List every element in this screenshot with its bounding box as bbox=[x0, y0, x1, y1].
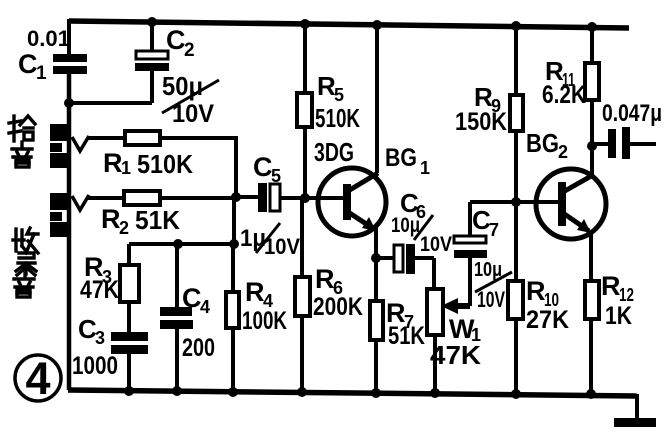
svg-text:1: 1 bbox=[420, 158, 430, 178]
svg-text:200: 200 bbox=[182, 334, 215, 362]
svg-text:2: 2 bbox=[558, 142, 568, 162]
svg-text:2: 2 bbox=[119, 218, 129, 238]
svg-text:C: C bbox=[166, 25, 186, 55]
svg-text:0.047μ: 0.047μ bbox=[602, 100, 662, 127]
svg-text:4: 4 bbox=[200, 297, 210, 317]
svg-text:2: 2 bbox=[184, 40, 195, 61]
svg-text:1: 1 bbox=[36, 63, 47, 84]
svg-text:C: C bbox=[18, 49, 38, 79]
svg-text:50μ: 50μ bbox=[162, 71, 203, 101]
svg-text:3: 3 bbox=[95, 328, 105, 348]
svg-text:C: C bbox=[182, 283, 202, 313]
svg-text:R: R bbox=[245, 277, 265, 307]
svg-text:200K: 200K bbox=[313, 293, 363, 321]
svg-text:C: C bbox=[253, 152, 273, 182]
svg-text:1μ: 1μ bbox=[240, 225, 266, 252]
svg-text:R: R bbox=[103, 148, 123, 178]
svg-text:7: 7 bbox=[489, 220, 499, 240]
svg-text:51K: 51K bbox=[135, 205, 180, 235]
svg-text:27K: 27K bbox=[526, 306, 569, 334]
svg-text:3DG: 3DG bbox=[314, 137, 354, 167]
svg-text:R: R bbox=[315, 264, 335, 294]
svg-text:R: R bbox=[526, 276, 546, 306]
svg-text:10μ: 10μ bbox=[474, 259, 502, 281]
svg-text:10V: 10V bbox=[420, 233, 452, 256]
svg-text:47K: 47K bbox=[80, 276, 119, 304]
svg-text:R: R bbox=[101, 204, 121, 234]
svg-text:6.2K: 6.2K bbox=[542, 81, 586, 109]
svg-text:51K: 51K bbox=[388, 322, 425, 350]
svg-text:1000: 1000 bbox=[72, 352, 118, 380]
svg-text:47K: 47K bbox=[430, 340, 481, 370]
svg-text:100K: 100K bbox=[242, 307, 287, 335]
svg-text:10μ: 10μ bbox=[391, 214, 420, 237]
svg-text:5: 5 bbox=[334, 85, 344, 105]
svg-text:5: 5 bbox=[271, 166, 281, 186]
svg-text:150K: 150K bbox=[455, 108, 507, 136]
svg-text:BG: BG bbox=[385, 144, 417, 172]
svg-text:0.01: 0.01 bbox=[27, 26, 70, 51]
svg-text:1: 1 bbox=[121, 158, 131, 178]
svg-text:510K: 510K bbox=[315, 103, 360, 133]
svg-text:1K: 1K bbox=[605, 302, 632, 330]
svg-text:10V: 10V bbox=[477, 287, 505, 312]
svg-text:R: R bbox=[601, 271, 621, 301]
svg-text:BG: BG bbox=[526, 128, 559, 158]
svg-text:4: 4 bbox=[25, 353, 50, 404]
svg-text:510K: 510K bbox=[137, 149, 193, 179]
